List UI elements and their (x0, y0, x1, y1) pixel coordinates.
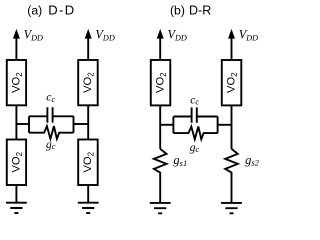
wire box to ground right of (a) (87, 185, 89, 203)
svg-text:(a): (a) (27, 3, 42, 17)
capacitor cc of (b): top edge with plates (173, 116, 217, 118)
node: junction wire right of (b) (218, 124, 232, 126)
VO2 device bottom-right of (a) (78, 140, 98, 186)
ground left of (b) (150, 203, 171, 213)
svg-text:VO2: VO2 (10, 151, 23, 172)
svg-text:VO2: VO2 (82, 151, 95, 172)
svg-text:VO2: VO2 (155, 72, 168, 93)
wire between boxes left of (a) (15, 105, 17, 139)
node: junction wire left of (a) (16, 123, 29, 125)
svg-text:gs2: gs2 (245, 153, 260, 168)
wire box to resistor left of (b) (159, 105, 161, 148)
supply arrow VDD right of (a) (87, 37, 89, 60)
svg-text:VO2: VO2 (82, 72, 95, 93)
ground right of (a) (78, 203, 99, 213)
svg-text:VDD: VDD (95, 28, 114, 43)
coupling loop (b): left/right verticals (173, 117, 217, 134)
supply arrow VDD left of (b) (159, 37, 161, 60)
resistor gc of (b): bottom edge with zigzag (173, 127, 217, 140)
svg-text:VO2: VO2 (226, 72, 239, 93)
resistor gs1 of (b) (154, 149, 167, 203)
coupling loop (a): left/right verticals (29, 116, 74, 132)
resistor gs2 of (b) (225, 149, 238, 203)
ground right of (b) (221, 203, 242, 213)
svg-text:VO2: VO2 (10, 72, 23, 93)
svg-text:gc: gc (190, 142, 200, 154)
svg-text:D-R: D-R (189, 3, 211, 17)
node: junction wire left of (b) (160, 124, 173, 126)
svg-text:cc: cc (190, 94, 199, 106)
svg-text:cc: cc (46, 92, 55, 104)
VO2 device top-right of (a) (78, 60, 98, 105)
supply arrow VDD left of (a) (15, 37, 17, 60)
VO2 device top-left of (a) (7, 60, 26, 105)
VO2 device right of (b) (222, 60, 242, 105)
supply arrow VDD right of (b) (231, 37, 233, 60)
svg-text:VDD: VDD (168, 28, 187, 43)
VO2 device bottom-left of (a) (7, 140, 26, 186)
svg-text:gc: gc (46, 139, 56, 151)
node: junction wire right of (a) (74, 123, 89, 125)
svg-text:(b): (b) (170, 3, 185, 17)
wire box to ground left of (a) (15, 185, 17, 203)
capacitor cc of (a): top edge with plates (29, 115, 74, 117)
wire between boxes right of (a) (87, 105, 89, 139)
ground left of (a) (6, 203, 27, 213)
resistor gc of (a): bottom edge with zigzag (29, 126, 74, 139)
svg-text:VDD: VDD (24, 28, 43, 43)
wire box to resistor right of (b) (231, 105, 233, 148)
svg-text:D-D: D-D (48, 2, 75, 17)
VO2 device left of (b) (151, 60, 171, 105)
svg-text:gs1: gs1 (173, 153, 187, 168)
svg-text:VDD: VDD (239, 28, 258, 43)
